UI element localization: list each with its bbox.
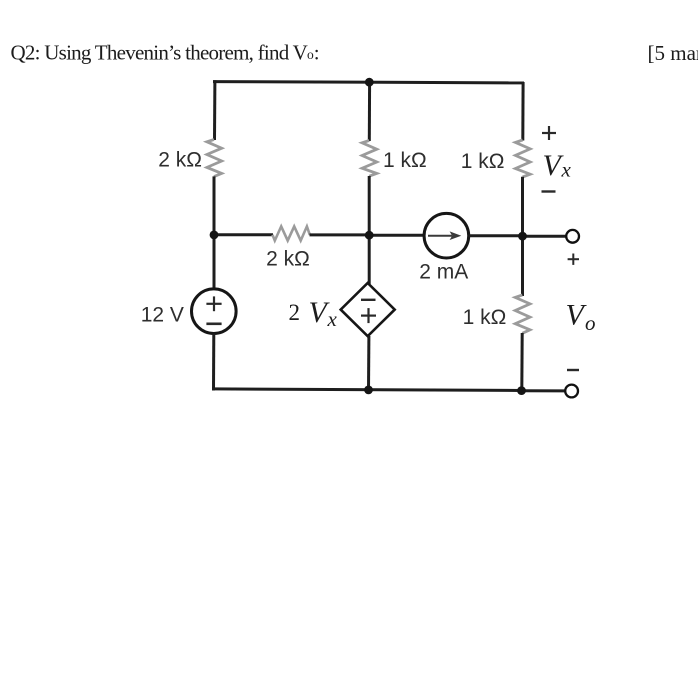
current source I1 2 mA [424,213,469,258]
resistor R2 2 kOhm (horizontal) [273,226,310,240]
node: junction top middle [365,78,374,87]
wire: bottom rail [212,389,522,391]
svg-text:2: 2 [289,300,301,325]
node: junction right middle [518,232,527,241]
resistor R5 1 kOhm (right lower) [515,295,530,333]
wire: left rail lower segment [212,334,215,391]
svg-text:2 kΩ: 2 kΩ [158,149,202,172]
resistor R3 1 kOhm (middle vertical) [362,141,377,177]
node: junction bottom middle [364,386,373,395]
minus sign of Vx [542,190,556,192]
plus sign at upper output terminal [568,254,579,265]
wire: stub to lower output terminal [521,389,566,392]
svg-text:[5 mar: [5 mar [648,41,698,65]
svg-text:1 kΩ: 1 kΩ [461,150,505,173]
resistor R1 2 kOhm (left vertical) [207,140,222,177]
wire: middle rail lower segment [367,336,370,391]
svg-text:Q2: Using Thevenin’s theorem,: Q2: Using Thevenin’s theorem, find Vo: [11,41,320,65]
wire: middle rail mid segment [368,176,371,284]
voltage source V1 12 V circle [192,289,237,334]
wire: middle horizontal segment from current source to right rail [469,234,524,237]
node: junction left middle [210,231,219,240]
wire: middle horizontal segment between R2 and middle rail [310,233,371,236]
node: junction bottom right [517,386,526,395]
wire: middle horizontal left segment [214,233,273,236]
svg-text:x: x [561,158,572,182]
label Vo [566,299,596,335]
minus sign at lower output terminal [567,369,579,371]
svg-text:1 kΩ: 1 kΩ [383,149,427,172]
wire: right rail upper segment [521,82,524,141]
plus sign of Vx [542,126,556,140]
wire: right rail lower segment [520,333,523,391]
wire: stub to upper output terminal [523,235,567,238]
node: junction middle middle [365,231,374,240]
terminal: upper output node [566,230,579,243]
wire: middle rail upper segment [368,82,371,141]
svg-text:x: x [327,307,338,331]
svg-text:o: o [585,311,596,335]
wire: left rail middle segment [213,176,216,289]
terminal: lower output node [565,385,578,398]
wire: right rail mid segment [521,177,524,296]
dependent source E1 (2 Vx diamond) [341,283,395,336]
wire: left rail upper segment [213,80,216,140]
svg-text:2 mA: 2 mA [419,261,468,284]
wire: middle horizontal segment from middle rail to current source [369,234,425,237]
svg-text:12 V: 12 V [141,304,184,327]
resistor R4 1 kOhm (right upper, Vx across it) [515,140,530,177]
label Vx [543,149,572,182]
svg-text:1 kΩ: 1 kΩ [463,306,507,329]
svg-text:2 kΩ: 2 kΩ [266,248,310,271]
wire: top rail [213,82,524,83]
